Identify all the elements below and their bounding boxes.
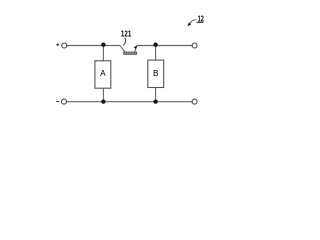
svg-text:121: 121 (121, 28, 132, 38)
svg-text:A: A (100, 68, 106, 78)
svg-text:B: B (153, 68, 159, 78)
